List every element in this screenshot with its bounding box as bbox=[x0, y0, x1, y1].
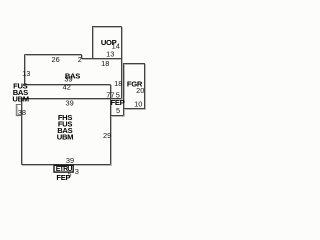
svg-text:39: 39 bbox=[66, 156, 74, 165]
svg-text:29: 29 bbox=[103, 131, 111, 140]
mid line 39 bbox=[25, 84, 111, 86]
svg-text:10: 10 bbox=[134, 100, 142, 109]
left small bump box bbox=[16, 105, 21, 116]
mid line 42 / lower box top bbox=[22, 98, 122, 100]
svg-text:13: 13 bbox=[22, 69, 30, 78]
svg-text:2: 2 bbox=[78, 55, 82, 64]
lower box right edge (29) bbox=[110, 85, 112, 165]
top edge right segment (18) bbox=[82, 58, 122, 60]
svg-text:18: 18 bbox=[114, 79, 122, 88]
lower box bottom edge bbox=[22, 164, 111, 166]
FEP right box bottom bbox=[111, 115, 124, 117]
svg-text:UBM: UBM bbox=[12, 95, 28, 104]
svg-text:18: 18 bbox=[101, 59, 109, 68]
svg-text:26: 26 bbox=[51, 55, 59, 64]
bottom FEP bump (dark block) bbox=[54, 165, 73, 172]
texts bbox=[12, 38, 144, 182]
svg-text:3: 3 bbox=[75, 167, 79, 176]
FGR box bbox=[124, 64, 145, 116]
svg-text:13: 13 bbox=[106, 50, 114, 59]
wall lines bbox=[22, 27, 145, 165]
svg-text:5: 5 bbox=[116, 106, 120, 115]
svg-text:UBM: UBM bbox=[57, 133, 73, 142]
svg-text:38: 38 bbox=[18, 108, 26, 117]
svg-text:42: 42 bbox=[63, 83, 71, 92]
upper BAS box top edge (26) bbox=[25, 54, 82, 56]
svg-text:FEP: FEP bbox=[56, 173, 70, 182]
UOP box left/top bbox=[93, 27, 122, 59]
right edge (18) incl UOP right bbox=[121, 27, 123, 99]
upper left edge (13) bbox=[24, 55, 26, 85]
jog (2) bbox=[81, 55, 83, 59]
svg-text:39: 39 bbox=[65, 99, 73, 108]
shadow copies of outline bbox=[17, 28, 145, 166]
svg-text:20: 20 bbox=[136, 86, 144, 95]
lower box left edge bbox=[21, 99, 23, 165]
